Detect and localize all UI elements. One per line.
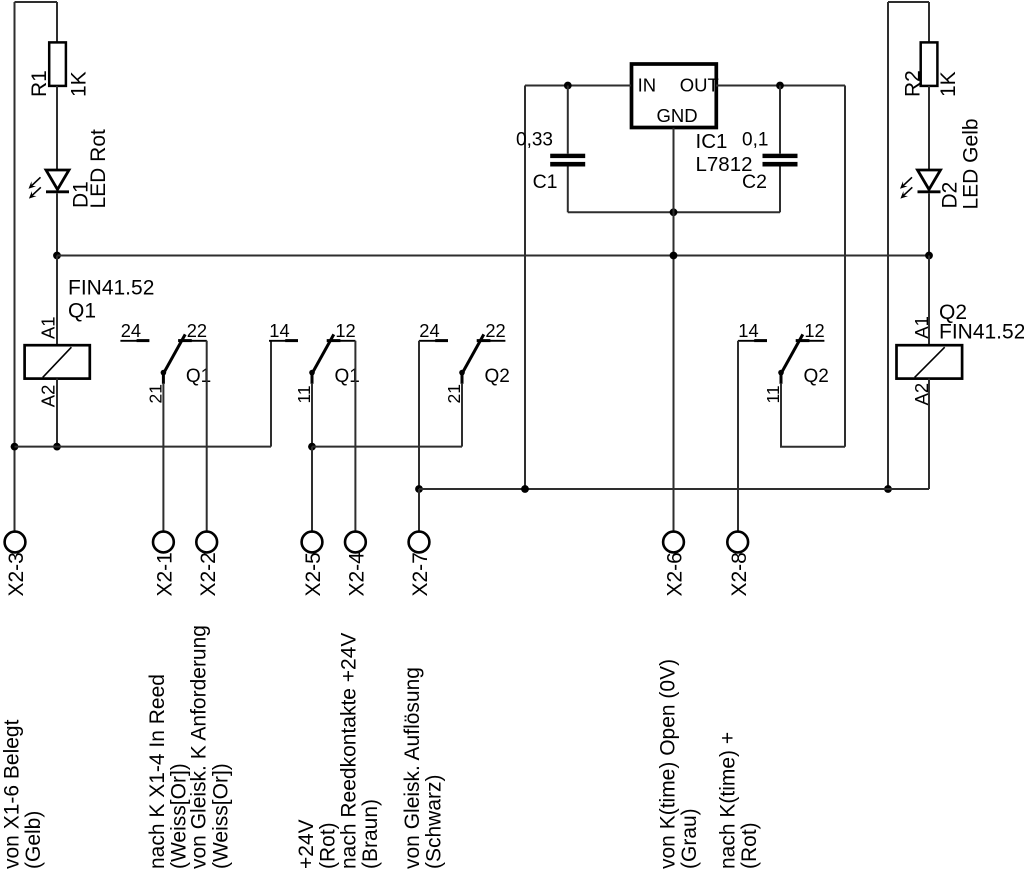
svg-text:X2-8: X2-8 bbox=[728, 552, 751, 596]
wire main horizontal rail bbox=[57, 255, 929, 257]
svg-text:R2: R2 bbox=[902, 70, 925, 97]
wire contact Q2 pin21 down bbox=[461, 384, 463, 447]
svg-text:nach K X1-4 In Reed: nach K X1-4 In Reed bbox=[146, 674, 169, 869]
node label X2-3 description bbox=[1, 719, 46, 869]
contact Q1 pins 14-12-11 bbox=[269, 320, 360, 404]
node label X2-6 description bbox=[657, 659, 702, 869]
node junction GND-caps bbox=[670, 208, 678, 216]
wire contact Q2 pin24 down bbox=[418, 341, 420, 489]
node junction left bottom bbox=[11, 443, 19, 451]
svg-text:(Grau): (Grau) bbox=[678, 808, 701, 869]
svg-text:22: 22 bbox=[485, 320, 505, 341]
node label X2-1 description bbox=[146, 674, 191, 869]
contact Q2 pins 24-22-21 bbox=[419, 320, 510, 404]
LED D2 bbox=[900, 118, 982, 209]
node label X2-2 description bbox=[187, 625, 232, 869]
wire left vertical to X2-3 bbox=[14, 2, 16, 532]
relay coil Q1 FIN41.52 bbox=[25, 277, 155, 408]
svg-text:Q2: Q2 bbox=[485, 366, 510, 387]
terminal X2-4 bbox=[345, 532, 369, 597]
svg-text:C1: C1 bbox=[533, 171, 558, 193]
terminal X2-6 bbox=[663, 532, 687, 597]
node label X2-7 description bbox=[401, 667, 446, 869]
svg-text:(Rot): (Rot) bbox=[317, 822, 340, 869]
svg-text:12: 12 bbox=[804, 320, 824, 341]
svg-text:24: 24 bbox=[121, 320, 141, 341]
wire contact Q1 pin21 to X2-1 bbox=[162, 384, 164, 532]
svg-text:R1: R1 bbox=[28, 70, 51, 97]
node junction D1-rail bbox=[53, 252, 61, 260]
svg-text:14: 14 bbox=[269, 320, 289, 341]
node label X2-8 description bbox=[717, 732, 762, 869]
svg-text:X2-3: X2-3 bbox=[5, 552, 28, 596]
wire rail to relay Q2 A1 bbox=[928, 256, 930, 346]
node junction C2 top bbox=[776, 82, 784, 90]
node junction A2 bbox=[53, 443, 61, 451]
voltage regulator IC1 bbox=[632, 64, 753, 176]
svg-text:X2-2: X2-2 bbox=[197, 552, 220, 596]
svg-text:(Schwarz): (Schwarz) bbox=[423, 774, 446, 869]
wire to R1 top bbox=[56, 2, 58, 42]
terminal X2-8 bbox=[727, 532, 751, 597]
terminal X2-1 bbox=[153, 532, 177, 597]
wire top-right hairpin bbox=[888, 1, 929, 3]
wire contact Q2 pin14 to X2-8 bbox=[737, 341, 739, 532]
node label X2-5 description bbox=[295, 819, 340, 869]
relay coil Q2 FIN41.52 bbox=[897, 301, 1024, 405]
wire relay Q1 A2 down bbox=[56, 379, 58, 447]
wire contact Q2 pin11 loop bbox=[781, 384, 845, 447]
svg-text:LED Gelb: LED Gelb bbox=[959, 118, 982, 209]
wire IN rail bbox=[525, 85, 631, 87]
contact Q2 pins 14-12-11 bbox=[738, 320, 829, 404]
wire contact Q1 pin12 to X2-4 bbox=[354, 341, 356, 532]
svg-text:(Weiss[Or]): (Weiss[Or]) bbox=[209, 763, 232, 869]
wire R1 to D1 bbox=[56, 86, 58, 170]
wire to R2 top bbox=[928, 2, 930, 42]
svg-text:FIN41.52: FIN41.52 bbox=[68, 277, 154, 300]
capacitor C2 bbox=[742, 130, 798, 194]
wire up to contact Q1 pin 14 bbox=[270, 341, 272, 447]
node junction pin24 bottom bbox=[415, 485, 423, 493]
wire top-left hairpin bbox=[15, 1, 58, 3]
svg-text:Q2: Q2 bbox=[804, 366, 829, 387]
wire OUT vertical bbox=[844, 86, 846, 447]
LED D1 bbox=[29, 129, 111, 209]
svg-text:Q1: Q1 bbox=[68, 300, 96, 323]
contact Q1 pins 24-22-21 bbox=[120, 320, 211, 404]
svg-text:A1: A1 bbox=[38, 317, 59, 340]
svg-text:14: 14 bbox=[738, 320, 758, 341]
terminal X2-7 bbox=[409, 532, 433, 597]
svg-text:22: 22 bbox=[187, 320, 207, 341]
svg-text:(Braun): (Braun) bbox=[359, 799, 382, 869]
svg-text:(Gelb): (Gelb) bbox=[22, 811, 45, 869]
wire capacitor ground bar bbox=[568, 211, 780, 213]
svg-text:von X1-6 Belegt: von X1-6 Belegt bbox=[1, 719, 24, 869]
wire horizontal A2 net bbox=[15, 446, 272, 448]
resistor R1 bbox=[28, 42, 91, 97]
node junction pin11 bbox=[308, 443, 316, 451]
wire R2 to D2 bbox=[928, 86, 930, 170]
svg-text:A1: A1 bbox=[911, 316, 932, 339]
svg-text:X2-4: X2-4 bbox=[346, 552, 369, 597]
svg-text:IN: IN bbox=[638, 75, 657, 96]
wire pin11 to Q2 pin21 bbox=[312, 446, 462, 448]
wire GND vertical to X2-6 bbox=[673, 128, 675, 532]
terminal X2-2 bbox=[196, 532, 220, 597]
svg-text:24: 24 bbox=[419, 320, 439, 341]
node junction GND-rail bbox=[670, 252, 678, 260]
svg-text:IC1: IC1 bbox=[696, 130, 728, 153]
resistor R2 bbox=[902, 42, 960, 97]
svg-text:nach Reedkontakte +24V: nach Reedkontakte +24V bbox=[337, 633, 360, 869]
wire +24V vertical bbox=[524, 86, 526, 490]
svg-text:GND: GND bbox=[657, 105, 698, 126]
svg-text:+24V: +24V bbox=[295, 819, 318, 869]
wire relay Q2 A2 down bbox=[928, 379, 930, 489]
wire D2 to rail bbox=[928, 193, 930, 255]
capacitor C1 bbox=[516, 130, 585, 194]
svg-text:X2-6: X2-6 bbox=[664, 552, 687, 596]
node junction x888 bottom bbox=[884, 485, 892, 493]
wire C2 top lead bbox=[779, 86, 781, 154]
svg-text:C2: C2 bbox=[742, 171, 767, 193]
wire C2 bottom lead bbox=[779, 167, 781, 213]
svg-text:A2: A2 bbox=[38, 385, 59, 408]
svg-text:nach K(time) +: nach K(time) + bbox=[717, 732, 740, 869]
wire pin24 to X2-7 bbox=[418, 489, 420, 532]
wire contact Q1 pin11 down bbox=[311, 384, 313, 447]
terminal X2-5 bbox=[302, 532, 326, 597]
node label X2-4 description bbox=[337, 633, 382, 869]
svg-text:OUT: OUT bbox=[680, 75, 719, 96]
svg-text:X2-7: X2-7 bbox=[409, 552, 432, 596]
svg-text:von Gleisk. Auflösung: von Gleisk. Auflösung bbox=[401, 667, 424, 869]
wire D1 to rail bbox=[56, 193, 58, 255]
wire pin11 to X2-5 bbox=[311, 447, 313, 532]
svg-text:12: 12 bbox=[335, 320, 355, 341]
svg-text:0,33: 0,33 bbox=[516, 130, 553, 151]
svg-text:(Rot): (Rot) bbox=[738, 822, 761, 869]
svg-text:1K: 1K bbox=[67, 71, 90, 97]
svg-text:X2-1: X2-1 bbox=[154, 552, 177, 596]
svg-text:X2-5: X2-5 bbox=[302, 552, 325, 596]
node junction D2-rail bbox=[925, 252, 933, 260]
wire C1 top lead bbox=[567, 86, 569, 154]
svg-text:0,1: 0,1 bbox=[742, 130, 768, 151]
svg-text:1K: 1K bbox=[937, 71, 960, 97]
svg-text:D2: D2 bbox=[939, 182, 962, 209]
terminal X2-3 bbox=[5, 532, 29, 597]
wire bottom horizontal rail bbox=[419, 488, 929, 490]
wire contact Q1 pin22 to X2-2 bbox=[206, 341, 208, 532]
wire right vertical x888 bbox=[887, 2, 889, 489]
wire C1 bottom lead bbox=[567, 167, 569, 213]
svg-text:FIN41.52: FIN41.52 bbox=[939, 321, 1024, 344]
svg-text:von Gleisk. K Anforderung: von Gleisk. K Anforderung bbox=[187, 625, 210, 869]
svg-text:von K(time) Open (0V): von K(time) Open (0V) bbox=[657, 659, 680, 869]
node junction x525 bottom bbox=[521, 485, 529, 493]
node junction C1 top bbox=[564, 82, 572, 90]
wire rail to relay Q1 A1 bbox=[56, 256, 58, 346]
svg-text:LED Rot: LED Rot bbox=[87, 129, 110, 209]
wire OUT rail bbox=[716, 85, 845, 87]
